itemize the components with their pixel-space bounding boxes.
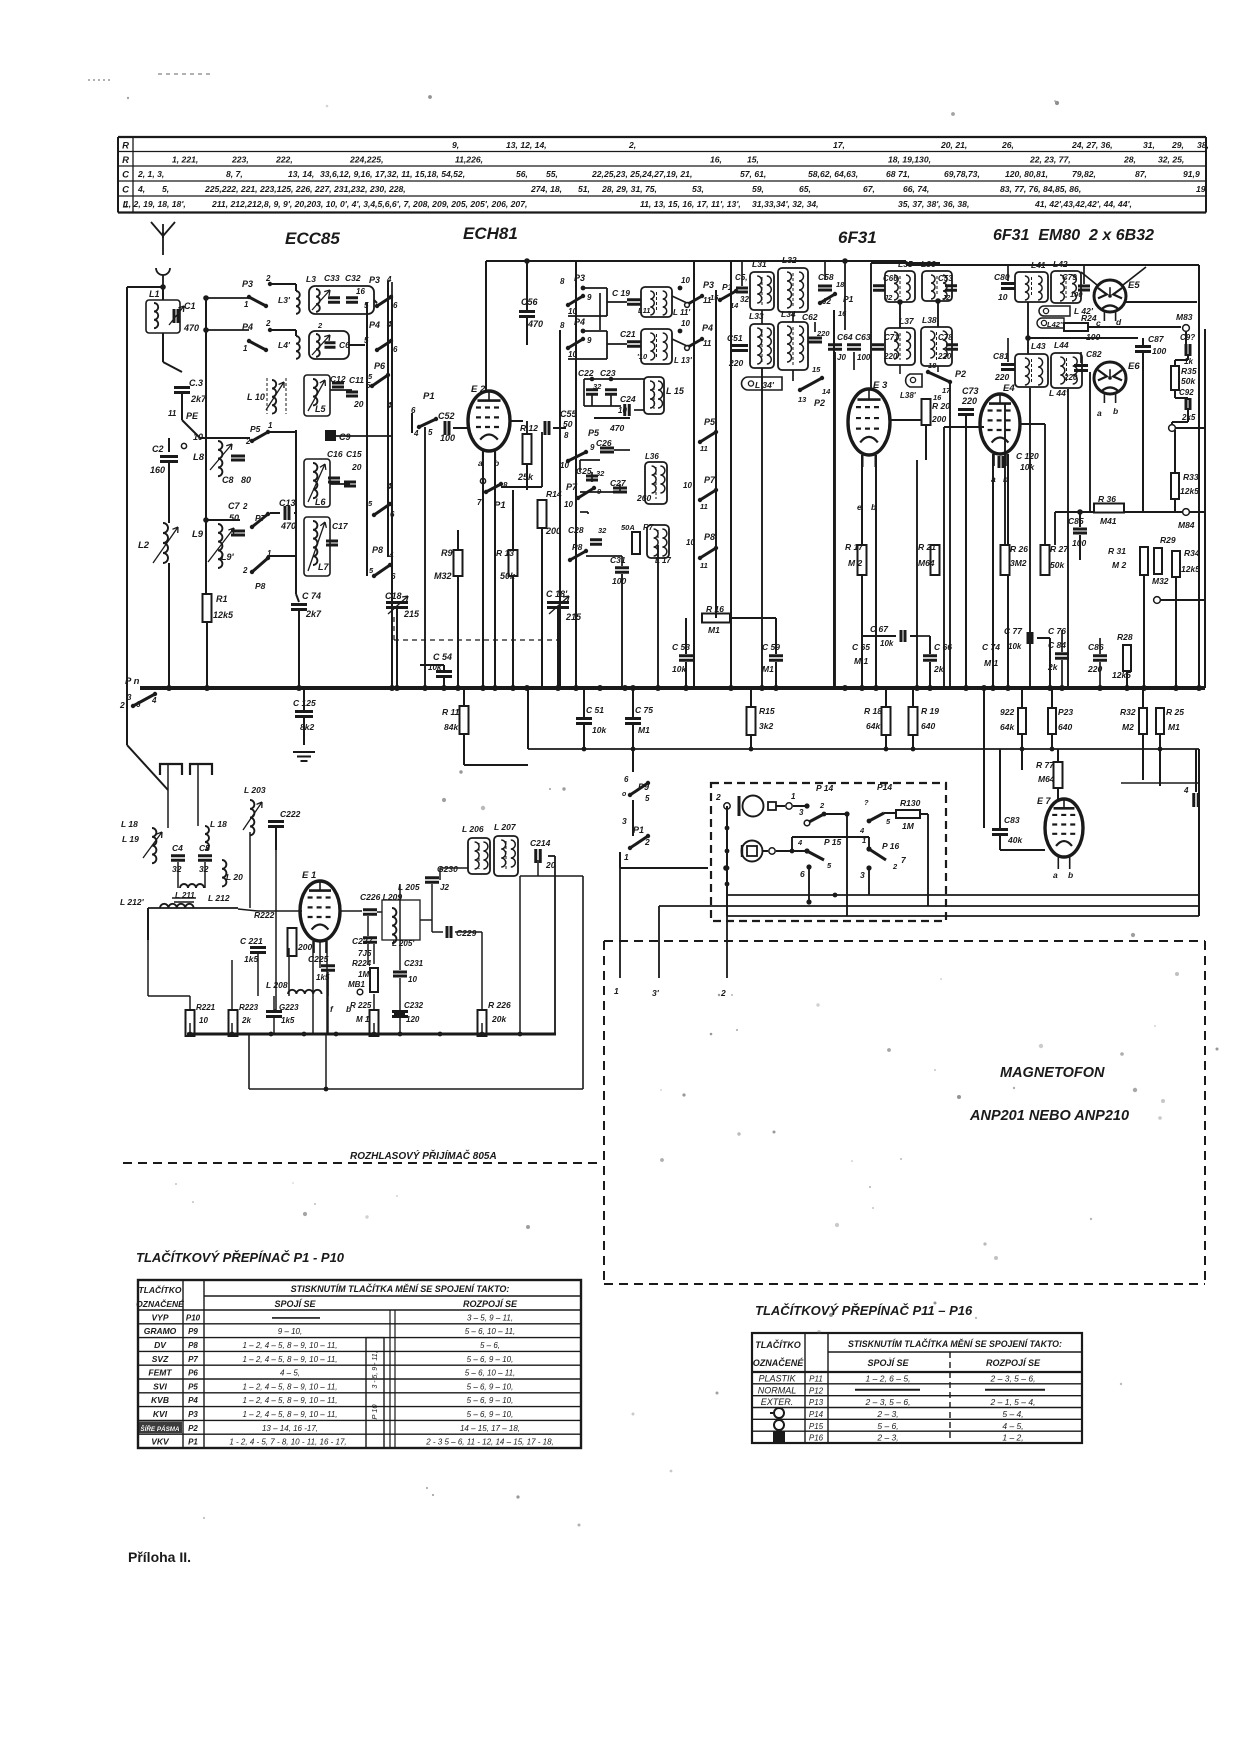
svg-text:C1: C1: [184, 301, 196, 311]
svg-text:3: 3: [799, 808, 804, 817]
svg-text:R 27: R 27: [1050, 544, 1069, 554]
wire: [999, 749, 1001, 828]
wire if2 mid: [899, 302, 901, 328]
svg-text:C7: C7: [228, 501, 240, 511]
svg-text:R 36: R 36: [1098, 494, 1116, 504]
capacitor C80: [1001, 284, 1015, 289]
svg-text:56,: 56,: [516, 169, 528, 179]
svg-text:1M: 1M: [902, 821, 915, 831]
svg-text:L6: L6: [315, 497, 326, 507]
capacitor C18 tuning: [386, 603, 408, 608]
capacitor C52: [445, 421, 449, 435]
resistor R226: [478, 1010, 487, 1036]
svg-text:C63: C63: [855, 332, 871, 342]
svg-text:4: 4: [859, 826, 865, 835]
svg-text:C232: C232: [404, 1001, 424, 1010]
svg-text:L 19: L 19: [122, 834, 139, 844]
svg-text:o: o: [622, 791, 627, 798]
svg-text:200: 200: [297, 942, 312, 952]
wire: [298, 611, 300, 688]
resistor R17: [858, 545, 867, 575]
wire: [1142, 734, 1144, 780]
svg-text:2: 2: [265, 319, 271, 328]
svg-text:P3: P3: [574, 273, 585, 283]
svg-text:L 208: L 208: [266, 980, 288, 990]
svg-text:3 – 5, 9 – 11,: 3 – 5, 9 – 11,: [467, 1313, 513, 1322]
svg-text:66, 74,: 66, 74,: [903, 184, 929, 194]
svg-text:M 1: M 1: [356, 1015, 370, 1024]
coil L18: [152, 828, 156, 863]
svg-text:5 – 4,: 5 – 4,: [1002, 1409, 1023, 1419]
wire: [325, 1034, 327, 1089]
svg-text:C71': C71': [884, 333, 902, 342]
svg-text:PLASTIK: PLASTIK: [758, 1373, 796, 1383]
symbol row5: [774, 1420, 784, 1430]
svg-text:6F31 EM80 2 x 6B32: 6F31 EM80 2 x 6B32: [993, 227, 1154, 244]
svg-text:C 19: C 19: [612, 288, 630, 298]
svg-text:M84: M84: [1178, 520, 1195, 530]
svg-text:67,: 67,: [863, 184, 875, 194]
loop L42b: [1039, 306, 1070, 316]
wire: [1021, 734, 1023, 749]
svg-text:L32: L32: [782, 255, 797, 265]
capacitor C24: [625, 404, 630, 416]
capacitor C53b: [679, 656, 693, 661]
capacitor C214: [536, 849, 541, 863]
tube E4: [980, 394, 1020, 454]
resistor R34: [1172, 551, 1180, 577]
coil L11 can: [641, 287, 672, 317]
capacitor C11: [346, 392, 358, 396]
svg-text:6: 6: [393, 345, 398, 354]
svg-text:C81: C81: [993, 351, 1009, 361]
svg-text:M1: M1: [638, 725, 650, 735]
svg-text:E5: E5: [1128, 280, 1140, 291]
svg-text:R28: R28: [1117, 632, 1133, 642]
capacitor C18b tuning: [547, 603, 569, 608]
capacitor C53b2: [945, 286, 957, 291]
svg-text:57, 61,: 57, 61,: [740, 169, 766, 179]
wire: [632, 800, 634, 836]
switch P9: [630, 783, 648, 795]
svg-text:100: 100: [612, 576, 626, 586]
svg-text:1 – 2, 6 – 5,: 1 – 2, 6 – 5,: [866, 1373, 911, 1383]
coil L36 can: [645, 462, 667, 504]
svg-text:12k5: 12k5: [213, 610, 234, 620]
svg-text:10: 10: [681, 319, 690, 328]
coil L43 can: [1015, 354, 1048, 387]
svg-text:220: 220: [816, 329, 830, 338]
wire: [270, 512, 280, 514]
wire P4 loop: [583, 330, 607, 332]
svg-text:C56: C56: [521, 297, 539, 307]
svg-text:L3': L3': [278, 295, 291, 305]
svg-text:225,222, 221, 223,125, 226,: 225,222, 221, 223,125, 226, 227, 231,232…: [204, 184, 406, 194]
svg-text:1 – 2, 4 – 5, 8 – 9,: 1 – 2, 4 – 5, 8 – 9, 10 – 11,: [242, 1410, 337, 1419]
switch P4 right: [377, 341, 391, 350]
svg-text:R24: R24: [1081, 313, 1097, 323]
svg-text:80: 80: [241, 475, 251, 485]
svg-text:?: ?: [864, 798, 869, 807]
svg-text:L2: L2: [138, 540, 150, 551]
switch P8 ech: [570, 551, 586, 560]
svg-text:R 20: R 20: [932, 401, 950, 411]
wire: [1204, 329, 1206, 688]
capacitor C1: [174, 309, 178, 323]
svg-text:32: 32: [598, 526, 607, 535]
tube E2: [468, 391, 510, 451]
resistor R18: [882, 707, 891, 735]
coil L208: [288, 990, 322, 994]
symbol row6: [773, 1431, 785, 1442]
svg-text:M 1: M 1: [854, 656, 868, 666]
wire: [162, 287, 164, 300]
capacitor C22: [586, 390, 598, 395]
wire: [583, 725, 585, 749]
resistor R221: [186, 1010, 195, 1036]
wire: [1126, 671, 1128, 688]
coil L3 prime: [296, 291, 300, 314]
wire: [463, 688, 465, 706]
svg-text:222,: 222,: [275, 155, 293, 165]
svg-text:L 207: L 207: [494, 822, 517, 832]
svg-text:55,: 55,: [546, 169, 558, 179]
svg-text:20: 20: [353, 399, 364, 409]
svg-text:R 26: R 26: [1010, 544, 1028, 554]
svg-text:1 – 2, 4 – 5, 8 – 9,: 1 – 2, 4 – 5, 8 – 9, 10 – 11,: [242, 1355, 337, 1364]
svg-text:31,33,34', 32, 34,: 31,33,34', 32, 34,: [752, 199, 819, 209]
svg-text:P8: P8: [255, 581, 266, 591]
capacitor C221: [250, 948, 266, 953]
svg-text:16: 16: [933, 393, 942, 402]
switch P8 right: [374, 565, 390, 576]
wire: [910, 635, 917, 637]
switch P4 left: [249, 341, 266, 350]
wire: [1161, 599, 1205, 601]
switch P8 left: [252, 558, 268, 572]
svg-text:50k: 50k: [1050, 560, 1065, 570]
wire: [526, 261, 528, 310]
coil L37 can: [885, 328, 915, 365]
capacitor C21: [627, 342, 641, 347]
capacitor C77: [1028, 632, 1032, 644]
capacitor C91: [1186, 344, 1190, 356]
svg-text:R 17: R 17: [845, 542, 864, 552]
resistor R25: [1156, 708, 1164, 734]
svg-text:1k5: 1k5: [281, 1016, 295, 1025]
svg-text:C64: C64: [837, 332, 853, 342]
parts table frame: [118, 137, 1206, 213]
wire: [885, 735, 887, 749]
svg-text:2k: 2k: [1047, 662, 1059, 672]
svg-text:11,226,: 11,226,: [455, 155, 483, 165]
svg-text:STISKNUTÍM TLAČÍTKA MĚNÍ SE: STISKNUTÍM TLAČÍTKA MĚNÍ SE SPOJENÍ TAKT…: [848, 1338, 1062, 1349]
resistor R32: [1139, 708, 1147, 734]
svg-text:P1: P1: [423, 391, 435, 402]
svg-text:41, 42',43,42,42', 44, 44',: 41, 42',43,42,42', 44, 44',: [1034, 199, 1132, 209]
svg-text:P7: P7: [255, 513, 267, 523]
svg-text:24, 27, 36,: 24, 27, 36,: [1071, 140, 1113, 150]
wire: [443, 678, 445, 688]
coil L31 can: [750, 272, 774, 310]
svg-text:2 – 3, 5 – 6,: 2 – 3, 5 – 6,: [990, 1373, 1036, 1383]
scan speckles: [127, 95, 1219, 1526]
svg-text:R 31: R 31: [1108, 546, 1126, 556]
svg-text:10: 10: [681, 276, 690, 285]
wire if strip: [731, 260, 906, 262]
terminal M84: [1183, 509, 1190, 516]
wire: [374, 300, 377, 303]
resistor R15: [747, 707, 756, 735]
jack1 terminal: [768, 802, 776, 810]
capacitor C edge: [1194, 793, 1199, 807]
svg-text:C 59: C 59: [762, 642, 780, 652]
svg-text:19: 19: [1196, 184, 1206, 194]
wire: [1143, 575, 1145, 688]
svg-text:1, 221,: 1, 221,: [172, 155, 198, 165]
capacitor C31: [615, 568, 629, 573]
svg-text:20: 20: [351, 462, 362, 472]
svg-text:6: 6: [624, 775, 629, 784]
svg-text:R 18: R 18: [864, 706, 882, 716]
svg-text:R1: R1: [216, 594, 228, 604]
svg-text:L 20: L 20: [226, 872, 243, 882]
wire: [929, 636, 931, 654]
capacitor C64: [828, 345, 842, 350]
svg-text:L 15: L 15: [666, 386, 685, 396]
capacitor C225: [321, 966, 335, 971]
svg-text:32, 25,: 32, 25,: [1158, 155, 1184, 165]
svg-text:32: 32: [593, 382, 602, 391]
tube E5 magic eye: [1094, 280, 1126, 312]
node: [723, 865, 729, 871]
wire: [693, 261, 695, 688]
svg-text:22,25,23, 25,24,27,19, 21,: 22,25,23, 25,24,27,19, 21,: [591, 169, 692, 179]
wire: [168, 438, 170, 452]
wire ech81 rows: [607, 301, 627, 303]
wire: [457, 530, 459, 550]
wire: [1187, 408, 1189, 418]
svg-text:C 120: C 120: [1016, 451, 1039, 461]
wire: [275, 828, 277, 850]
wire: [583, 688, 585, 717]
svg-text:M64: M64: [918, 558, 935, 568]
wire: [486, 260, 731, 262]
svg-text:M83: M83: [1176, 312, 1193, 322]
svg-text:4: 4: [1183, 786, 1189, 795]
svg-text:2: 2: [265, 274, 271, 283]
capacitor C226: [363, 910, 377, 915]
svg-text:5 – 6, 10 – 11,: 5 – 6, 10 – 11,: [465, 1327, 516, 1336]
svg-text:ŠÍŘE PÁSMA: ŠÍŘE PÁSMA: [140, 1424, 180, 1433]
capacitor C230: [425, 878, 439, 883]
wire R130 riser: [927, 814, 929, 906]
wire: [594, 417, 630, 419]
node: [678, 286, 683, 291]
switch P4 ech: [568, 339, 583, 348]
svg-text:9 – 10,: 9 – 10,: [278, 1327, 302, 1336]
left table frame: [138, 1280, 581, 1448]
wire C214 riser: [548, 855, 555, 857]
capacitor C125: [295, 712, 313, 717]
svg-text:L 11': L 11': [673, 308, 691, 317]
resistor R12: [526, 421, 528, 434]
coil L6: [304, 459, 330, 507]
svg-text:64k: 64k: [866, 721, 881, 731]
svg-text:ROZPOJÍ SE: ROZPOJÍ SE: [986, 1358, 1041, 1368]
svg-text:220: 220: [728, 358, 743, 368]
svg-text:C229: C229: [456, 928, 477, 938]
terminal M83: [1183, 325, 1190, 332]
wire P3 loop: [583, 287, 607, 289]
svg-text:69,78,73,: 69,78,73,: [944, 169, 980, 179]
svg-text:P3: P3: [188, 1410, 198, 1419]
svg-text:1: 1: [614, 986, 619, 996]
svg-text:P7: P7: [704, 475, 716, 485]
switch P3 ech: [568, 296, 583, 305]
svg-text:R 226: R 226: [488, 1000, 511, 1010]
wire: [126, 688, 128, 712]
svg-text:5,: 5,: [162, 184, 169, 194]
wire if2 rail: [871, 262, 940, 264]
resistor R11: [460, 706, 469, 734]
svg-text:L 34': L 34': [755, 380, 775, 390]
svg-text:ROZPOJÍ SE: ROZPOJÍ SE: [463, 1299, 518, 1309]
svg-text:P3: P3: [242, 279, 253, 289]
coil L36b can: [922, 271, 952, 301]
wire: [1174, 499, 1176, 512]
pin 3: [866, 865, 871, 870]
wire: [295, 330, 297, 336]
svg-text:TLAČÍTKO: TLAČÍTKO: [755, 1339, 801, 1350]
svg-text:4 – 5,: 4 – 5,: [1002, 1421, 1023, 1431]
svg-text:E 7: E 7: [1037, 796, 1052, 806]
radio receiver dashed border: [123, 1162, 601, 1164]
resistor R1: [203, 594, 212, 622]
resistor R20: [922, 399, 931, 425]
svg-text:50A: 50A: [621, 523, 635, 532]
svg-text:P6: P6: [188, 1369, 198, 1378]
capacitor C75: [625, 719, 641, 724]
wire: [526, 464, 528, 490]
svg-text:P8: P8: [372, 545, 383, 555]
svg-text:R221: R221: [196, 1003, 216, 1012]
capacitor C66c: [923, 656, 937, 661]
capacitor C27: [613, 488, 627, 492]
svg-text:R15: R15: [759, 706, 775, 716]
svg-text:SVZ: SVZ: [152, 1354, 169, 1364]
coil L212: [160, 904, 194, 908]
svg-text:2,: 2,: [628, 140, 636, 150]
svg-text:C18: C18: [385, 591, 402, 601]
terminal PE: [181, 443, 186, 448]
wire: [632, 725, 634, 749]
svg-text:2 – 3,: 2 – 3,: [876, 1409, 898, 1419]
svg-text:P5: P5: [250, 424, 261, 434]
svg-text:P23: P23: [1058, 707, 1073, 717]
svg-text:P14: P14: [809, 1410, 824, 1419]
wire: [1176, 427, 1205, 429]
svg-text:1: 1: [243, 344, 248, 353]
wire: [181, 394, 183, 420]
wire: [295, 284, 297, 291]
capacitor C87: [1135, 347, 1151, 352]
svg-text:2: 2: [819, 801, 825, 810]
wire: [1171, 422, 1173, 425]
svg-text:640: 640: [921, 721, 935, 731]
wire: [182, 420, 200, 438]
wire: [1185, 331, 1187, 345]
svg-text:18: 18: [928, 361, 937, 370]
svg-text:OZNAČENÉ: OZNAČENÉ: [136, 1298, 184, 1309]
coil L10: [266, 378, 268, 414]
svg-text:M1: M1: [762, 664, 774, 674]
svg-text:50k: 50k: [1181, 376, 1196, 386]
wire: [1007, 454, 1009, 688]
svg-text:2: 2: [242, 502, 248, 511]
capacitor C7: [231, 531, 245, 535]
svg-text:15,: 15,: [747, 155, 759, 165]
svg-text:470: 470: [280, 521, 296, 531]
switch P1 bottom: [630, 836, 648, 848]
wire: [268, 431, 296, 433]
capacitor C120: [999, 456, 1003, 468]
svg-text:C27: C27: [610, 478, 627, 488]
resistor R26: [1001, 545, 1010, 575]
svg-text:5 – 6,: 5 – 6,: [877, 1421, 898, 1431]
svg-text:11: 11: [700, 444, 708, 453]
svg-text:2 - 3 5 – 6, 11 - 12, 14 –: 2 - 3 5 – 6, 11 - 12, 14 – 15, 17 - 18,: [425, 1438, 554, 1447]
svg-text:28, 29, 31, 75,: 28, 29, 31, 75,: [601, 184, 657, 194]
svg-text:200: 200: [931, 414, 946, 424]
svg-text:11, 13, 15, 16, 17, 11', 13',: 11, 13, 15, 16, 17, 11', 13',: [640, 199, 741, 209]
svg-text:L11: L11: [638, 306, 650, 315]
svg-text:6: 6: [411, 406, 416, 415]
switch P5 left: [252, 432, 268, 441]
wire: [775, 618, 777, 654]
switch P3 right: [377, 297, 391, 306]
switch P4 ech right: [688, 339, 702, 347]
svg-text:1 – 2, 4 – 5, 8 – 9,: 1 – 2, 4 – 5, 8 – 9, 10 – 11,: [242, 1382, 337, 1391]
capacitor C19: [627, 300, 641, 305]
svg-text:2, 1, 3,: 2, 1, 3,: [137, 169, 164, 179]
coil L41 can: [1015, 272, 1048, 302]
svg-text:32: 32: [199, 864, 209, 874]
svg-text:J2: J2: [942, 293, 951, 302]
svg-text:L 203: L 203: [244, 785, 266, 795]
wire: [983, 688, 985, 828]
coil L8: [218, 441, 222, 476]
wire: [205, 297, 207, 594]
wire: [884, 812, 896, 814]
svg-text:13, 14,: 13, 14,: [288, 169, 314, 179]
svg-text:C33: C33: [324, 273, 340, 283]
svg-text:R: R: [122, 155, 129, 166]
tape connector dashed box: [711, 783, 946, 921]
svg-text:R 25: R 25: [1166, 707, 1184, 717]
magnetofon dashed box: [604, 941, 1205, 1284]
svg-text:PE: PE: [186, 411, 199, 421]
svg-text:SVI: SVI: [153, 1381, 167, 1391]
wire: [965, 416, 967, 688]
svg-text:C58: C58: [818, 272, 834, 282]
svg-text:C2: C2: [152, 444, 164, 454]
svg-text:NORMAL: NORMAL: [758, 1385, 797, 1395]
svg-text:P4: P4: [702, 323, 713, 333]
gang dashed link: [394, 639, 560, 641]
wire: [1037, 637, 1050, 639]
svg-text:'10: '10: [637, 352, 648, 361]
